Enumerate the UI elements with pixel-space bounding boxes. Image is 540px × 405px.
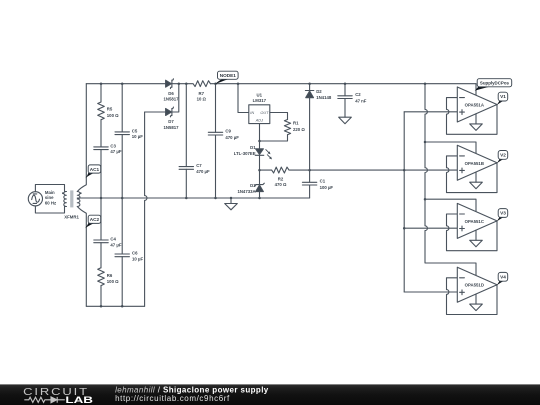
svg-text:SupplyDCPos: SupplyDCPos — [480, 81, 510, 86]
wire secondary top to AC1 — [77, 84, 86, 192]
svg-text:OPA551A: OPA551A — [465, 103, 484, 108]
wire D7 anode — [145, 111, 166, 113]
svg-text:C5: C5 — [132, 128, 138, 133]
node junction ground rail C7 — [185, 197, 188, 200]
node junction D1 R2 — [258, 169, 261, 172]
flag V3 — [496, 209, 507, 222]
node junction ground rail C9 — [214, 197, 217, 200]
svg-text:470 µF: 470 µF — [196, 169, 210, 174]
label R2 — [275, 176, 287, 187]
node junction C2 top — [344, 82, 347, 85]
wire supply branch C — [425, 199, 476, 211]
svg-text:C1: C1 — [320, 179, 326, 184]
svg-text:10 Ω: 10 Ω — [197, 97, 207, 102]
label C7 — [196, 163, 210, 174]
wire supply stub A — [475, 84, 477, 96]
wire top rail after R7 — [211, 83, 477, 85]
svg-text:V4: V4 — [500, 274, 506, 279]
node junction U1 IN feed — [237, 82, 240, 85]
diode D7 — [166, 107, 174, 117]
svg-text:ADJ: ADJ — [255, 119, 263, 123]
svg-text:47 µF: 47 µF — [110, 243, 121, 248]
node junction plus feed main — [403, 169, 406, 172]
node junction ground stub — [230, 197, 233, 200]
logo resistor diode line — [24, 397, 65, 403]
svg-text:C7: C7 — [196, 163, 202, 168]
node junction ground rail C5 — [121, 197, 124, 200]
wire top rail after D6 — [172, 83, 192, 85]
diode D6 — [166, 79, 174, 89]
flag AC1 — [85, 165, 100, 178]
ground GND2 below C2 — [339, 117, 352, 124]
svg-text:47 µF: 47 µF — [110, 149, 121, 154]
svg-text:V1: V1 — [500, 94, 506, 99]
capacitor C3 — [94, 147, 108, 198]
wire ADJ node to D1 — [259, 141, 261, 149]
svg-text:R1: R1 — [293, 121, 299, 126]
wire plus input A with hops — [404, 111, 457, 113]
svg-text:http://circuitlab.com/c9hc6rf: http://circuitlab.com/c9hc6rf — [115, 394, 230, 403]
svg-text:AC2: AC2 — [90, 217, 100, 222]
flag AC2 — [85, 215, 101, 228]
svg-text:OUT: OUT — [260, 111, 269, 115]
wire D7 cathode to D6 junction — [172, 84, 179, 112]
node junction bottom rail C4 chain — [100, 305, 103, 308]
svg-text:C9: C9 — [225, 129, 231, 134]
wire plus input C with hops — [404, 227, 457, 229]
LED D1 — [255, 149, 272, 160]
svg-text:OPA551D: OPA551D — [465, 283, 484, 288]
resistor R2 — [272, 167, 289, 173]
resistor R6 — [98, 268, 105, 307]
node junction ground rail D3 — [258, 197, 261, 200]
svg-text:470 µF: 470 µF — [225, 135, 239, 140]
transformer XFMR1 — [62, 190, 82, 207]
resistor R5 — [98, 84, 105, 147]
svg-text:D1: D1 — [250, 145, 256, 150]
svg-text:C2: C2 — [355, 92, 361, 97]
label C1 — [320, 179, 334, 190]
svg-text:U1: U1 — [257, 92, 263, 97]
svg-text:AC1: AC1 — [90, 167, 100, 172]
wire U1 OUT to R1 — [270, 113, 288, 120]
svg-text:IN: IN — [250, 111, 254, 115]
svg-text:LTL-307EE: LTL-307EE — [234, 151, 256, 156]
label U1 LM317 — [253, 92, 267, 103]
wire R2 to C1 to opamp feed — [290, 169, 405, 171]
label R6 — [107, 273, 119, 284]
node junction D6 cathode — [178, 82, 181, 85]
capacitor C2 — [338, 84, 352, 118]
flag V4 — [496, 272, 507, 285]
wire plus input D with hop — [404, 291, 457, 293]
node junction C7 top — [185, 82, 188, 85]
label D1 — [234, 145, 256, 156]
node junction ground rail R5 chain — [100, 197, 103, 200]
svg-text:47 nF: 47 nF — [355, 98, 367, 103]
resistor R1 — [284, 120, 290, 135]
wire supply branch B — [425, 142, 476, 154]
node junction supply branch B — [424, 141, 427, 144]
label C9 — [225, 129, 239, 140]
svg-text:D3: D3 — [250, 183, 256, 188]
svg-text:D6: D6 — [168, 91, 174, 96]
svg-text:D7: D7 — [168, 119, 174, 124]
label source Main sine 60 Hz — [45, 190, 56, 205]
wire R1 bottom to ADJ — [260, 135, 288, 141]
svg-text:10 µF: 10 µF — [132, 257, 143, 262]
wire center tap ground rail with hop — [77, 197, 309, 199]
node junction bottom rail C6 — [121, 305, 124, 308]
wire top rail left segment — [86, 83, 165, 85]
svg-text:LM317: LM317 — [253, 98, 267, 103]
op-amp U2 OPA551A — [447, 87, 498, 134]
wire U1 IN feed — [238, 84, 249, 113]
node junction top rail at R5 — [100, 82, 103, 85]
svg-text:C3: C3 — [110, 143, 116, 148]
node junction D2 top — [308, 82, 311, 85]
svg-text:10 µF: 10 µF — [132, 134, 143, 139]
svg-text:R2: R2 — [278, 176, 284, 181]
ground GND1 — [225, 198, 238, 210]
node junction supply rail — [424, 82, 427, 85]
capacitor C9 — [208, 84, 222, 198]
flag V1 — [496, 92, 507, 105]
label D6 — [163, 91, 179, 102]
label C2 — [355, 92, 367, 103]
svg-text:100 Ω: 100 Ω — [107, 279, 119, 284]
label D3 — [237, 183, 256, 194]
capacitor C5 — [115, 84, 129, 198]
voltage source V5 Main sine 60 Hz — [28, 192, 42, 206]
op-amp U5 OPA551D — [447, 267, 498, 314]
svg-text:D2: D2 — [316, 89, 322, 94]
svg-text:V2: V2 — [500, 153, 506, 158]
wire bottom rail — [86, 305, 144, 307]
svg-text:60 Hz: 60 Hz — [45, 200, 56, 205]
capacitor C7 — [179, 84, 193, 198]
svg-text:OPA551C: OPA551C — [465, 219, 484, 224]
svg-text:NODE1: NODE1 — [220, 73, 237, 78]
svg-text:1N5817: 1N5817 — [163, 125, 179, 130]
svg-text:1N4733A: 1N4733A — [237, 189, 255, 194]
resistor R7 — [193, 81, 210, 87]
wire opamp plus feed vertical — [403, 112, 405, 292]
wire D7 negative branch vertical — [145, 112, 147, 306]
svg-text:R7: R7 — [199, 91, 205, 96]
label C4 — [110, 236, 121, 247]
flag SupplyDCPos — [475, 79, 512, 91]
svg-text:C4: C4 — [110, 236, 116, 241]
label C3 — [110, 143, 121, 154]
label D7 — [163, 119, 179, 130]
svg-text:LAB: LAB — [65, 395, 93, 405]
label R1 — [293, 121, 305, 132]
flag NODE1 — [215, 71, 238, 84]
svg-text:C6: C6 — [132, 250, 138, 255]
svg-text:1N5817: 1N5817 — [163, 97, 179, 102]
node junction ADJ R1 — [258, 140, 261, 143]
svg-text:OPA551B: OPA551B — [465, 161, 484, 166]
wire source loop top — [35, 185, 66, 192]
label R7 — [197, 91, 207, 102]
svg-text:R5: R5 — [107, 107, 113, 112]
op-amp U1 LM317 box — [249, 105, 270, 124]
flag V2 — [496, 151, 507, 164]
label C6 — [132, 250, 143, 261]
svg-text:100 Ω: 100 Ω — [107, 113, 119, 118]
svg-text:100 µF: 100 µF — [320, 185, 334, 190]
svg-text:R6: R6 — [107, 273, 113, 278]
op-amp U4 OPA551C — [447, 203, 498, 250]
node junction supply branch C — [424, 198, 427, 201]
svg-text:470 Ω: 470 Ω — [275, 182, 287, 187]
capacitor C1 — [302, 170, 316, 198]
capacitor C6 — [115, 198, 129, 306]
svg-text:220 Ω: 220 Ω — [293, 127, 305, 132]
wire U1 ADJ down — [259, 124, 261, 141]
label D2 — [316, 89, 332, 100]
svg-text:1N4148: 1N4148 — [316, 95, 332, 100]
node NODE1 junction — [214, 82, 217, 85]
zener D3 — [255, 170, 265, 198]
wire plus input B hops — [404, 169, 457, 171]
wire secondary bottom to AC2 — [77, 207, 86, 307]
svg-text:V3: V3 — [500, 211, 506, 216]
wire source loop bottom — [35, 206, 66, 213]
capacitor C4 — [94, 198, 108, 268]
node junction top rail at C5 — [121, 82, 124, 85]
wire to R2 — [260, 169, 272, 171]
label R5 — [107, 107, 119, 118]
svg-text:XFMR1: XFMR1 — [64, 215, 79, 220]
op-amp U3 OPA551B — [447, 145, 498, 192]
wire supply rail vertical — [425, 84, 476, 276]
node junction plus feed C — [403, 227, 406, 230]
wire D1 to R2 node — [259, 155, 261, 170]
label C5 — [132, 128, 143, 139]
node junction C1 top — [308, 169, 311, 172]
diode D2 — [305, 84, 313, 170]
